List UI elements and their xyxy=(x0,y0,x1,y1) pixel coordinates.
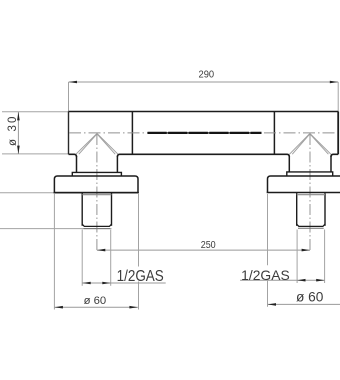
right funnel inner left line xyxy=(292,134,309,154)
dimension d30 arrow up xyxy=(17,112,20,120)
right neck right edge xyxy=(330,156,332,172)
left flange bottom edge xyxy=(54,192,139,194)
left d60 arrow right xyxy=(129,306,137,309)
right thread left edge xyxy=(296,193,298,226)
body bar right edge xyxy=(337,112,339,155)
left flange xyxy=(54,176,138,193)
right funnel inner right line xyxy=(310,134,328,154)
dimension d30 line xyxy=(17,112,19,154)
left funnel inner right line xyxy=(97,134,115,154)
right d60 extension upper xyxy=(267,194,269,265)
extension line thread-bottom left margin xyxy=(0,228,112,230)
left thread left edge xyxy=(81,193,83,226)
right d60 extension lower xyxy=(267,281,269,307)
left d60 dimension line xyxy=(55,306,138,308)
left thread bottom chamfer xyxy=(82,224,111,226)
right d60 arrow xyxy=(268,303,276,306)
left 1/2GAS arrow right xyxy=(102,282,110,285)
right flange bottom edge xyxy=(267,192,340,194)
left collar xyxy=(72,172,121,176)
left funnel inner left line xyxy=(79,134,97,154)
right thread bottom second line xyxy=(298,227,324,229)
right 1/2GAS extension left xyxy=(296,230,298,284)
left 1/2GAS extension left xyxy=(81,230,83,286)
right vertical centerline xyxy=(309,134,311,250)
dimension d30 extension top xyxy=(2,111,68,113)
left thread bottom second line xyxy=(84,228,111,230)
dimension 290 arrow right xyxy=(330,81,338,84)
left funnel outer left line xyxy=(76,134,97,155)
svg-text:1/2GAS: 1/2GAS xyxy=(241,268,289,283)
body bar bottom edge right segment with neck fillet xyxy=(331,154,338,156)
right 1/2GAS dimension line xyxy=(240,279,325,281)
right thread relief line xyxy=(297,194,325,196)
cartridge slot underlay line xyxy=(148,132,262,134)
left neck left edge xyxy=(76,156,78,172)
body bar left edge xyxy=(68,112,70,155)
dimension 290 line xyxy=(69,81,339,83)
body bar bottom edge middle segment with neck fillets xyxy=(117,154,289,156)
left neck right edge xyxy=(116,156,118,172)
right 1/2GAS extension right xyxy=(324,230,326,284)
left funnel outer right line xyxy=(97,134,118,155)
left d60 extension right lower xyxy=(138,282,140,310)
svg-text:1/2GAS: 1/2GAS xyxy=(117,268,164,285)
dimension d30 extension bottom xyxy=(2,153,68,155)
left d60 extension left xyxy=(53,194,55,310)
body division line left xyxy=(131,112,133,155)
svg-text:290: 290 xyxy=(199,70,215,81)
svg-text:ø 30: ø 30 xyxy=(7,117,19,147)
body bar top edge xyxy=(69,111,339,113)
svg-text:ø 60: ø 60 xyxy=(296,290,324,305)
right flange xyxy=(268,176,340,193)
left 1/2GAS arrow left xyxy=(82,282,90,285)
dimension d30 arrow down xyxy=(17,146,20,154)
left thread relief line xyxy=(82,194,111,196)
right funnel outer right line xyxy=(310,134,331,155)
svg-text:250: 250 xyxy=(201,240,216,251)
dimension 250 line xyxy=(97,249,310,251)
right 1/2GAS arrow left xyxy=(297,279,305,282)
body division line right xyxy=(273,112,275,155)
left thread right edge xyxy=(111,193,113,226)
horizontal centerline xyxy=(69,132,338,134)
dimension 250 arrow left xyxy=(97,249,105,252)
dimension 290 extension right xyxy=(337,82,339,112)
svg-text:ø 60: ø 60 xyxy=(84,295,107,307)
left d60 extension right upper xyxy=(138,194,140,267)
left 1/2GAS extension right xyxy=(110,230,112,286)
dimension 290 arrow left xyxy=(69,81,77,84)
right collar xyxy=(287,172,333,176)
right neck left edge xyxy=(288,156,290,172)
extension line flange-bottom left margin xyxy=(0,192,54,194)
dimension 250 arrow right xyxy=(302,249,310,252)
cartridge slot dark centerline xyxy=(148,132,262,134)
left vertical centerline xyxy=(96,134,98,250)
body bar bottom edge left segment with neck fillet xyxy=(69,154,77,156)
left 1/2GAS dimension line xyxy=(82,282,165,284)
right funnel outer left line xyxy=(290,134,310,155)
right thread bottom chamfer xyxy=(297,224,325,226)
left d60 arrow left xyxy=(55,306,63,309)
right 1/2GAS arrow right xyxy=(316,279,324,282)
dimension 290 extension left xyxy=(68,82,70,112)
right d60 dimension line xyxy=(268,303,340,305)
right thread right edge xyxy=(324,193,326,226)
